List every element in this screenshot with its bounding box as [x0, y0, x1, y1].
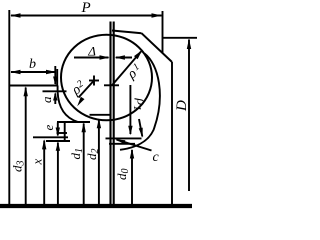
svg-text:x: x [30, 159, 45, 166]
svg-text:b: b [29, 57, 36, 72]
svg-text:c: c [153, 150, 160, 165]
svg-text:e: e [41, 125, 56, 131]
svg-text:a: a [39, 96, 54, 103]
svg-text:P: P [81, 0, 91, 16]
svg-text:D: D [174, 100, 190, 112]
svg-text:Δ: Δ [87, 43, 96, 58]
